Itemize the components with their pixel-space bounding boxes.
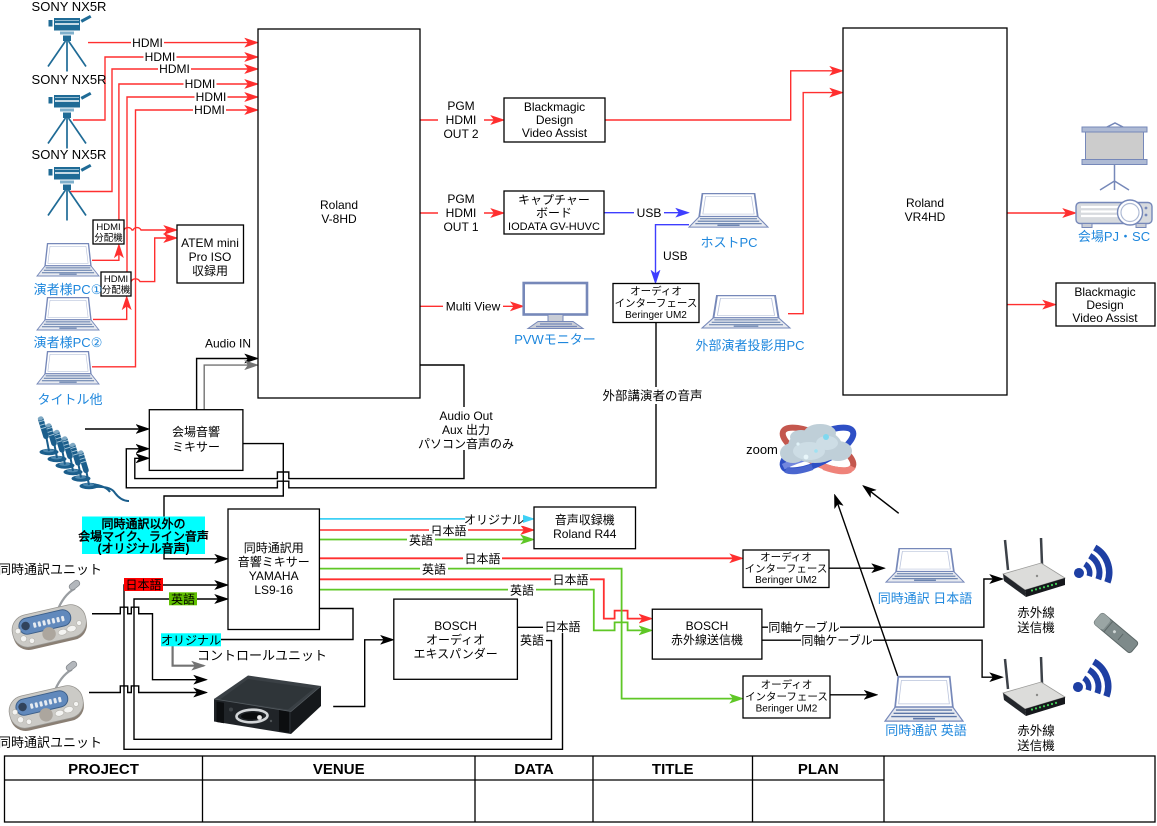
label japanese on R44 wire	[429, 523, 468, 538]
box ATEM mini Pro ISO	[177, 225, 244, 283]
wire english loop expander to YAMAHA	[134, 599, 552, 739]
svg-text:外部講演者の音声: 外部講演者の音声	[602, 388, 702, 403]
svg-text:HDMI: HDMI	[159, 62, 190, 76]
wire HDMI splitter2 to ATEM with hop	[131, 238, 176, 282]
svg-text:オーディオ: オーディオ	[761, 678, 813, 691]
svg-text:演者様PC②: 演者様PC②	[34, 335, 103, 350]
wire coax cable2 BOSCH IR to router2	[762, 640, 1002, 677]
svg-text:TITLE: TITLE	[652, 761, 694, 778]
wire YAMAHA red to BOSCH IR transmitter with hop	[319, 579, 650, 618]
wire camera1 HDMI to V-8HD	[88, 42, 257, 44]
wire laptop3 title PC to V-8HD input 6	[92, 110, 257, 367]
wire UM2 mid to japanese interpreter laptop	[829, 567, 884, 569]
wire YAMAHA red to audio interface UM2 mid	[319, 557, 741, 559]
svg-text:インターフェース: インターフェース	[615, 298, 698, 310]
wire external presenter PC to VR4HD	[788, 93, 842, 314]
label PGM HDMI OUT 1	[438, 192, 484, 234]
svg-text:SONY NX5R: SONY NX5R	[32, 72, 107, 87]
svg-text:同軸ケーブル: 同軸ケーブル	[768, 620, 839, 635]
ring front arcs over cloud	[824, 459, 851, 479]
svg-text:英語: 英語	[520, 633, 544, 648]
laptop speaker PC 1	[37, 244, 99, 276]
label HDMI 1	[131, 36, 164, 50]
wire venue mixer to YAMAHA original input	[164, 444, 283, 559]
svg-text:OUT 2: OUT 2	[443, 127, 478, 141]
svg-text:音響ミキサー: 音響ミキサー	[238, 554, 310, 569]
laptop title PC	[37, 352, 99, 384]
svg-text:DATA: DATA	[514, 761, 554, 778]
svg-text:Video Assist: Video Assist	[1072, 311, 1138, 325]
svg-text:USB: USB	[637, 206, 662, 220]
monitor PVW	[524, 283, 587, 329]
svg-text:HDMI: HDMI	[104, 274, 128, 285]
wire YAMAHA green to audio interface UM2 bottom	[319, 569, 741, 699]
svg-text:HDMI: HDMI	[132, 36, 163, 50]
svg-text:インターフェース: インターフェース	[745, 691, 828, 703]
microphone cluster	[37, 416, 129, 501]
wire coax cable1 BOSCH IR to router1	[762, 579, 1002, 627]
svg-text:会場PJ・SC: 会場PJ・SC	[1078, 229, 1150, 244]
wire PGM HDMI OUT1 to capture board	[420, 212, 503, 214]
camera SONY NX5R 1	[48, 15, 92, 72]
box capture board IODATA GV-HUVC	[504, 191, 604, 234]
svg-text:同時通訳 日本語: 同時通訳 日本語	[878, 591, 973, 606]
box Blackmagic Design Video Assist top	[504, 98, 605, 142]
box Blackmagic Design Video Assist right	[1056, 283, 1155, 326]
box Roland V-8HD	[258, 29, 420, 398]
ir router 1	[1003, 538, 1065, 597]
label english on R44 wire	[407, 533, 435, 548]
svg-text:インターフェース: インターフェース	[745, 563, 828, 575]
wire camera3 HDMI to V-8HD	[70, 69, 257, 192]
laptop speaker PC 2	[37, 298, 99, 330]
label external lecturer audio	[600, 387, 704, 404]
svg-text:PGM: PGM	[447, 192, 474, 206]
bottom info table	[5, 756, 1156, 822]
svg-text:IODATA GV-HUVC: IODATA GV-HUVC	[508, 221, 600, 233]
svg-text:音声収録機: 音声収録機	[555, 512, 615, 527]
svg-text:外部演者投影用PC: 外部演者投影用PC	[695, 338, 804, 353]
svg-text:HDMI: HDMI	[96, 222, 120, 233]
box HDMI splitter 1	[93, 220, 124, 244]
svg-text:同時通訳ユニット: 同時通訳ユニット	[0, 735, 102, 750]
laptop external presenter PC	[702, 296, 790, 328]
wire YAMAHA red to Roland R44	[319, 529, 532, 531]
svg-text:Blackmagic: Blackmagic	[1074, 285, 1135, 299]
wire Blackmagic to VR4HD	[605, 71, 842, 120]
svg-text:日本語: 日本語	[125, 577, 161, 592]
label original near R44	[464, 513, 524, 527]
svg-text:オーディオ: オーディオ	[760, 551, 812, 564]
svg-text:BOSCH: BOSCH	[686, 619, 729, 633]
label Multi View	[443, 299, 503, 314]
svg-text:会場音響: 会場音響	[172, 424, 220, 439]
svg-text:HDMI: HDMI	[446, 206, 477, 220]
control unit photo	[214, 676, 321, 735]
svg-text:Aux 出力: Aux 出力	[442, 423, 490, 437]
box audio interface Beringer UM2 mid	[743, 550, 829, 588]
wire external speaker audio from UM2 top to venue mixer	[126, 323, 656, 488]
label HDMI 3	[158, 62, 191, 76]
box YAMAHA LS9-16 mixer	[228, 509, 319, 630]
svg-text:同時通訳 英語: 同時通訳 英語	[885, 723, 967, 738]
box BOSCH audio expander	[394, 599, 518, 679]
projector	[1076, 200, 1152, 228]
label HDMI 4	[184, 77, 217, 91]
svg-text:zoom: zoom	[746, 442, 778, 457]
svg-text:英語: 英語	[409, 533, 433, 548]
label original cyan badge	[161, 633, 221, 647]
wire HDMI splitter1 to ATEM with hops	[124, 228, 176, 230]
wire VR4HD to projector	[1007, 212, 1075, 214]
label coax cable 2	[801, 633, 873, 648]
wire interpreter unit1 to control unit with hops	[92, 607, 206, 680]
svg-text:PVWモニター: PVWモニター	[514, 332, 596, 347]
svg-text:Multi View: Multi View	[446, 300, 501, 314]
wire Multi View to PVW monitor	[420, 305, 522, 307]
box venue audio mixer	[149, 410, 243, 471]
svg-text:収録用: 収録用	[192, 263, 228, 278]
svg-text:日本語: 日本語	[552, 572, 588, 587]
laptop interpreter english	[885, 677, 963, 721]
wire YAMAHA original out to original label	[185, 609, 353, 640]
svg-text:オーディオ: オーディオ	[630, 285, 682, 298]
svg-text:同時通訳ユニット: 同時通訳ユニット	[0, 562, 102, 577]
label PGM HDMI OUT 2	[438, 99, 484, 141]
label japanese on IR wire	[551, 572, 590, 587]
wire USB host PC down to audio interface UM2 top	[656, 225, 690, 282]
svg-text:LS9-16: LS9-16	[254, 583, 293, 597]
svg-text:送信機: 送信機	[1017, 738, 1055, 753]
svg-text:英語: 英語	[422, 561, 446, 576]
interpreter console 2	[6, 660, 87, 734]
wire YAMAHA cyan original to Roland R44	[319, 518, 532, 520]
svg-text:HDMI: HDMI	[185, 77, 216, 91]
svg-text:Audio IN: Audio IN	[205, 337, 251, 351]
svg-text:Beringer UM2: Beringer UM2	[625, 310, 687, 321]
svg-text:Video Assist: Video Assist	[522, 126, 588, 140]
label HDMI 2	[144, 50, 177, 64]
label english green badge	[169, 591, 197, 606]
wire YAMAHA green to BOSCH IR transmitter with hop	[319, 590, 650, 631]
svg-text:BOSCH: BOSCH	[434, 619, 477, 633]
svg-text:パソコン音声のみ: パソコン音声のみ	[418, 436, 514, 451]
svg-text:ATEM mini: ATEM mini	[181, 236, 239, 250]
zoom cloud logo	[777, 419, 859, 478]
box Roland VR4HD	[843, 28, 1007, 395]
wire V-8HD audio out to venue mixer	[135, 365, 464, 479]
projection screen	[1082, 123, 1147, 190]
svg-text:SONY NX5R: SONY NX5R	[32, 0, 107, 14]
laptop interpreter japanese	[886, 549, 964, 582]
svg-text:HDMI: HDMI	[446, 113, 477, 127]
label english on green A wire	[420, 561, 448, 576]
svg-text:YAMAHA: YAMAHA	[249, 569, 299, 583]
svg-text:V-8HD: V-8HD	[321, 212, 357, 226]
svg-text:オリジナル: オリジナル	[464, 513, 524, 527]
label HDMI 5	[195, 90, 228, 104]
label english on IR wire	[508, 582, 536, 597]
svg-text:日本語: 日本語	[544, 619, 580, 634]
svg-text:演者様PC①: 演者様PC①	[34, 282, 103, 297]
svg-text:英語: 英語	[171, 591, 195, 606]
wire japanese loop expander to YAMAHA	[124, 585, 563, 749]
svg-text:Beringer UM2: Beringer UM2	[755, 575, 817, 586]
label HDMI 6	[193, 103, 226, 117]
svg-text:(オリジナル音声): (オリジナル音声)	[98, 541, 190, 556]
wire laptop1 to HDMI splitter1	[92, 246, 119, 260]
camera SONY NX5R 2	[48, 92, 92, 149]
svg-text:VR4HD: VR4HD	[905, 210, 946, 224]
svg-text:Pro ISO: Pro ISO	[189, 250, 232, 264]
box HDMI splitter 2	[101, 272, 131, 296]
svg-text:タイトル他: タイトル他	[37, 392, 102, 407]
wire USB capture board to host PC	[604, 212, 688, 214]
svg-text:VENUE: VENUE	[313, 761, 365, 778]
svg-text:分配機: 分配機	[94, 232, 123, 244]
svg-text:Roland: Roland	[906, 196, 944, 210]
box audio interface Beringer UM2 top	[613, 284, 699, 323]
svg-text:オリジナル: オリジナル	[161, 633, 221, 647]
svg-text:コントロールユニット: コントロールユニット	[197, 648, 327, 663]
wire audio IN gray from venue mixer to V-8HD	[204, 365, 256, 410]
svg-text:USB: USB	[663, 249, 688, 263]
label Audio Out Aux	[420, 407, 513, 450]
label USB horizontal	[634, 206, 664, 220]
svg-text:Blackmagic: Blackmagic	[524, 100, 585, 114]
label japanese red badge	[124, 577, 163, 592]
label japanese on expander loop	[543, 619, 582, 634]
wire HDMI splitter1 to V-8HD input 4	[119, 84, 257, 220]
usb dongle	[1093, 612, 1139, 654]
wire YAMAHA green to Roland R44	[319, 539, 532, 541]
edge labels with white background	[124, 36, 873, 648]
svg-text:HDMI: HDMI	[196, 90, 227, 104]
svg-text:エキスパンダー: エキスパンダー	[413, 646, 497, 661]
laptop host PC	[689, 194, 768, 227]
svg-text:Audio Out: Audio Out	[439, 409, 493, 423]
svg-text:赤外線送信機: 赤外線送信機	[671, 632, 743, 647]
svg-text:Design: Design	[1086, 298, 1123, 312]
svg-text:Roland: Roland	[320, 198, 358, 212]
svg-text:日本語: 日本語	[464, 551, 500, 566]
wire interpreter unit2 to control unit with hops	[89, 686, 206, 693]
box BOSCH IR transmitter	[652, 609, 762, 659]
svg-text:赤外線: 赤外線	[1017, 723, 1055, 738]
svg-text:ミキサー: ミキサー	[172, 440, 220, 454]
svg-text:OUT 1: OUT 1	[443, 220, 478, 234]
svg-text:Roland R44: Roland R44	[553, 527, 617, 541]
svg-text:PGM: PGM	[447, 99, 474, 113]
svg-text:英語: 英語	[510, 582, 534, 597]
arrow japanese laptop to zoom cloud	[864, 486, 899, 513]
svg-text:日本語: 日本語	[430, 523, 466, 538]
svg-text:Beringer UM2: Beringer UM2	[756, 704, 818, 715]
wire audio IN black from venue mixer to V-8HD	[197, 359, 257, 410]
svg-text:同時通訳用: 同時通訳用	[244, 540, 304, 555]
wire HDMI splitter2 to V-8HD input 5	[127, 97, 257, 272]
ir router 2	[1003, 657, 1065, 716]
wifi signal 2	[1067, 659, 1113, 706]
svg-text:Design: Design	[536, 113, 573, 127]
camera SONY NX5R 3	[48, 164, 92, 221]
wire mics to venue mixer	[85, 428, 148, 430]
wire camera2 HDMI to V-8HD	[73, 57, 257, 120]
wifi signal 1	[1068, 545, 1114, 592]
wire control unit to BOSCH expander	[333, 640, 392, 707]
svg-text:同軸ケーブル: 同軸ケーブル	[801, 633, 872, 648]
svg-text:PLAN: PLAN	[798, 761, 839, 778]
svg-text:HDMI: HDMI	[194, 103, 225, 117]
svg-text:SONY NX5R: SONY NX5R	[32, 147, 107, 162]
interpreter console 1	[9, 579, 90, 653]
svg-text:送信機: 送信機	[1017, 620, 1055, 635]
svg-text:キャプチャー: キャプチャー	[518, 193, 590, 207]
highlight cyan note non-interpreter audio	[78, 516, 209, 556]
arrow english laptop to zoom cloud	[835, 496, 898, 676]
label japanese on UM2 wire	[463, 551, 502, 566]
wire laptop2 to HDMI splitter2	[93, 298, 127, 320]
svg-text:ホストPC: ホストPC	[700, 235, 757, 250]
box audio interface Beringer UM2 bottom	[743, 676, 830, 718]
svg-text:ボード: ボード	[536, 206, 572, 220]
wire VR4HD to Blackmagic video assist right	[1007, 304, 1055, 306]
label english on expander loop	[518, 633, 546, 648]
wire PGM HDMI OUT2 to Blackmagic	[420, 119, 503, 121]
svg-text:オーディオ: オーディオ	[426, 632, 485, 647]
svg-text:分配機: 分配機	[102, 284, 131, 296]
wire UM2 bottom to english interpreter laptop	[830, 694, 876, 696]
svg-text:PROJECT: PROJECT	[68, 761, 139, 778]
svg-text:赤外線: 赤外線	[1017, 605, 1055, 620]
label coax cable 1	[768, 620, 840, 635]
wire original label to control unit gray	[173, 645, 204, 666]
box Roland R44 recorder	[534, 507, 636, 549]
